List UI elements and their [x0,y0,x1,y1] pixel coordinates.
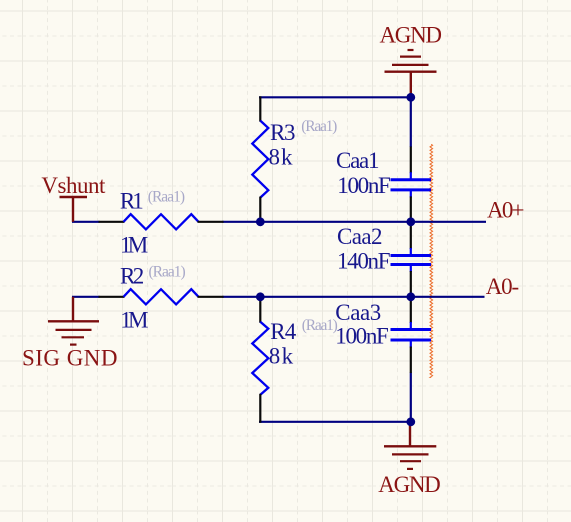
junction [256,217,265,226]
svg-text:(Raa1): (Raa1) [149,264,186,281]
svg-text:Caa1: Caa1 [336,148,380,173]
wire SIG GND to R2 [72,296,100,298]
capacitor Caa2 [391,221,432,297]
svg-text:8k: 8k [269,144,294,169]
wire bottom AGND net horizontal [259,421,412,423]
capacitor Caa3 [391,296,432,373]
wire top AGND net horizontal [259,96,412,98]
svg-text:Caa2: Caa2 [337,224,383,249]
compile mask hatch line [430,144,433,377]
svg-text:R1: R1 [120,188,144,213]
junction [406,292,415,301]
wire AGND net vertical upper [410,96,412,147]
junction [406,217,415,226]
junction [256,292,265,301]
wire A0- net [223,296,485,298]
power port AGND (top) [385,50,437,96]
svg-text:SIG GND: SIG GND [22,345,118,370]
svg-text:1M: 1M [120,307,148,332]
wire Vshunt to R1 [72,221,100,223]
resistor R4 [252,296,268,423]
resistor R2 [99,289,224,304]
svg-text:R4: R4 [270,319,297,344]
svg-text:1M: 1M [120,232,148,257]
svg-text:(Raa1): (Raa1) [301,118,337,135]
svg-text:R2: R2 [120,263,144,288]
junction [406,93,415,102]
svg-text:100nF: 100nF [335,324,389,349]
svg-text:(Raa1): (Raa1) [148,189,185,206]
svg-text:(Raa1): (Raa1) [302,317,338,334]
svg-text:AGND: AGND [378,472,441,497]
svg-text:140nF: 140nF [337,248,391,273]
power port SIG GND [48,297,99,345]
capacitor Caa1 [391,147,432,223]
svg-text:Vshunt: Vshunt [41,173,106,198]
power port AGND (bottom) [384,422,436,469]
power port Vshunt [60,197,88,222]
svg-text:AGND: AGND [380,22,443,47]
resistor R3 [252,96,268,222]
svg-text:R3: R3 [270,120,296,145]
svg-text:Caa3: Caa3 [335,300,381,325]
svg-text:A0+: A0+ [487,198,525,223]
junction [406,417,415,426]
resistor R1 [99,214,224,229]
svg-text:100nF: 100nF [337,173,391,198]
svg-text:A0-: A0- [486,274,520,299]
wire AGND net vertical lower [410,373,412,423]
wire A0+ net [223,221,487,223]
svg-text:8k: 8k [269,344,294,369]
